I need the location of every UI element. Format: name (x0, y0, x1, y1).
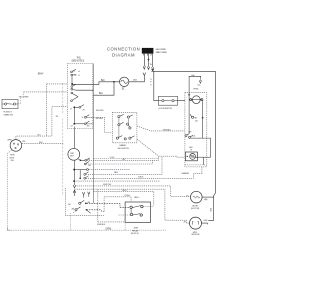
svg-text:C8: C8 (71, 125, 73, 127)
timer box TM1 (67, 63, 92, 128)
fabric selector contacts row3 (116, 136, 134, 140)
wire timer motor down (74, 160, 76, 185)
svg-text:L1: L1 (74, 71, 76, 73)
wire inside bottom (185, 164, 206, 166)
svg-text:C1: C1 (74, 74, 76, 76)
label motor ground (191, 232, 200, 236)
svg-text:(MOTOR): (MOTOR) (191, 208, 200, 210)
svg-text:M1 WHT: M1 WHT (96, 118, 104, 120)
svg-text:DOOR SWITCH: DOOR SWITCH (159, 108, 173, 110)
relay inner vertical (130, 209, 132, 214)
wire bundle D y169.6 TAN (89, 169, 131, 171)
node right bus dot (202, 117, 204, 119)
svg-text:4(M): 4(M) (204, 199, 208, 201)
wire door switch to heater (178, 100, 185, 102)
wire bundle F y178.3 to heater (86, 167, 202, 178)
wire branch x97.8 down (97, 189, 99, 222)
node timer bus dot1 (71, 83, 73, 85)
wire relay right up to drive feed (143, 206, 154, 208)
svg-text:WHT-BLK: WHT-BLK (97, 224, 106, 226)
contact C (84, 163, 86, 165)
fabric selector internal wires (119, 118, 128, 137)
svg-text:USE COPPER: USE COPPER (156, 49, 167, 51)
wire fuse to thermostat (188, 95, 191, 100)
power cord lead L2 (152, 54, 216, 221)
svg-text:FABRIC: FABRIC (120, 144, 127, 147)
node bus dots (73, 169, 75, 171)
disconnect arrows pair (82, 192, 90, 198)
thermostat contact (190, 114, 194, 118)
wire bundle E y174.4 (86, 156, 162, 174)
svg-text:240V: 240V (133, 80, 138, 82)
ground corner elbow (7, 227, 10, 230)
node right of motor (80, 159, 82, 161)
wire element down (203, 157, 205, 165)
wire blower right lead (202, 196, 214, 198)
timer right wire x93.8 vertical (92, 64, 94, 204)
wire cluster ground down (70, 211, 76, 230)
timer label TM1 (72, 57, 85, 62)
wire left entry y84 (47, 83, 68, 85)
ground wire GRN (7, 150, 166, 230)
label blower motor (191, 205, 200, 210)
wire vertical x46.7 (46, 84, 48, 136)
svg-text:YEL-W REV: YEL-W REV (19, 96, 30, 98)
svg-text:PUSH-TO: PUSH-TO (3, 112, 12, 114)
timer contact T2 (71, 74, 77, 76)
wire bundle G y181.1 (74, 180, 160, 182)
svg-text:MTR: MTR (134, 228, 139, 230)
contact B (85, 159, 87, 161)
wire bundle I y188.4 to blower (75, 189, 190, 223)
timer contact T4 blue wire (71, 88, 94, 90)
wire limit row (191, 138, 211, 157)
node element left (187, 156, 188, 157)
wire x104.6 to fabric box (93, 117, 112, 132)
fuse bracket lead (189, 76, 201, 94)
wire timer bottom to motor (74, 127, 76, 149)
svg-text:(GRN): (GRN) (106, 229, 112, 231)
label RED on L2 vertical (150, 79, 152, 87)
svg-text:GROUND: GROUND (191, 234, 200, 236)
svg-text:BLK-WH: BLK-WH (96, 110, 104, 112)
wire door switch to timer y92 (24, 91, 68, 93)
svg-text:PF(W): PF(W) (193, 89, 198, 91)
fuse disconnect arrow (199, 79, 201, 83)
buzzer BZ (120, 77, 129, 86)
svg-text:SEL SWITCH: SEL SWITCH (118, 148, 130, 150)
label motor switch (9, 155, 15, 163)
label push-to-start (3, 112, 13, 117)
blower motor circle (191, 191, 203, 203)
timer contact T8 (84, 115, 93, 119)
fabric selector contacts row1 (118, 114, 133, 118)
wire thermostat right bus (202, 101, 204, 118)
contact E (84, 174, 86, 176)
fabric selector switch box (112, 112, 136, 143)
cluster link vertical (79, 170, 81, 179)
timer contact T5 (71, 92, 78, 97)
wire bundle C y164 (86, 160, 152, 164)
power cord lead L1 (129, 54, 146, 82)
svg-text:BLWR: BLWR (192, 205, 198, 207)
wire bundle J y191.4 (93, 191, 153, 205)
svg-text:S-BLK: S-BLK (138, 177, 144, 179)
bottom-left cluster contact 2M (75, 207, 104, 213)
svg-text:START SW: START SW (3, 113, 13, 116)
svg-text:1M: 1M (87, 126, 90, 128)
timer contact T3 black wire (71, 84, 94, 87)
limit contacts (185, 134, 193, 139)
heater element box (185, 152, 197, 161)
wire element right (196, 156, 211, 158)
timer contact T7 (74, 105, 84, 109)
timer bus wire lower (73, 107, 75, 124)
wire push-to-start up (18, 92, 24, 104)
note text right of terminal block (156, 49, 168, 54)
svg-text:GRY-BLK: GRY-BLK (163, 129, 172, 131)
terminal block TB1 (black box) (142, 48, 154, 56)
label fabric selector (118, 144, 130, 150)
wire motor switch right BLK (22, 144, 64, 146)
svg-text:HEATER: HEATER (182, 172, 190, 175)
svg-text:TAN: TAN (114, 171, 118, 174)
wire motor ground right GND (202, 223, 209, 224)
heater assembly box (185, 93, 207, 167)
wire bundle A y158.5 step to heater element (93, 156, 185, 158)
hi-limit thermostat (190, 96, 203, 104)
bottom-left cluster contact 1M (79, 200, 130, 207)
node fuse entry (188, 94, 190, 96)
cabinet boundary dashed line (62, 83, 64, 196)
disconnect arrows on bus (73, 185, 76, 196)
timer contact T1 (71, 69, 76, 73)
wire bundle H y185.2 (75, 186, 191, 196)
svg-text:BRN: BRN (8, 139, 13, 141)
wire fabric to bundle diagonal (137, 139, 159, 156)
contact D (87, 169, 89, 171)
node timer bus dot3 (73, 123, 75, 125)
timer bus wire upper (71, 76, 73, 84)
node timer bus dot2 (73, 106, 75, 108)
door switch box (158, 96, 177, 105)
motor centrifugal switch M1 (10, 140, 22, 152)
label motor relay (131, 228, 139, 236)
wire bundle B y160.3 (87, 159, 159, 161)
node J1 (113, 81, 115, 83)
motor relay box (125, 202, 151, 222)
power cord lead N (147, 54, 149, 70)
svg-text:RELAY: RELAY (132, 229, 139, 232)
svg-text:WIRE CONDRS: WIRE CONDRS (156, 52, 168, 54)
contact F (84, 177, 86, 179)
wire BLACK L to timer (93, 82, 99, 85)
svg-text:MTR: MTR (10, 155, 15, 157)
svg-text:DIAGRAM: DIAGRAM (112, 53, 135, 58)
svg-text:(SEE NOTE 2): (SEE NOTE 2) (72, 60, 85, 62)
timer contact T6 (71, 97, 78, 102)
svg-text:5L: 5L (82, 117, 84, 119)
wire motor switch top VIO (16, 107, 68, 140)
svg-text:BLU: BLU (99, 93, 103, 95)
label timer motor (70, 153, 75, 158)
wire junction down to timer (BLUE) (93, 82, 114, 95)
wire relay ground stub (124, 222, 126, 230)
wire WHT-BLK to relay (66, 188, 104, 216)
timer motor TM (68, 148, 80, 160)
svg-text:CONNECTION: CONNECTION (107, 46, 140, 51)
svg-text:(NOTE 3): (NOTE 3) (131, 233, 139, 235)
svg-text:WHT-YEL: WHT-YEL (103, 184, 112, 186)
motor ground circle (190, 217, 202, 229)
svg-text:CENT: CENT (9, 157, 15, 159)
svg-text:GND: GND (203, 220, 208, 222)
wire fabric to heater RED (137, 126, 185, 131)
svg-text:VIO: VIO (37, 135, 41, 137)
wire right bus to limit (202, 118, 204, 138)
wire thermostat left bus (188, 100, 190, 134)
push-to-start switch box (2, 99, 18, 108)
title CONNECTION DIAGRAM (107, 46, 140, 57)
label HI-T 250 (194, 118, 199, 123)
wire buzzer left to junction (99, 81, 120, 83)
timer contact T9 (74, 121, 93, 125)
bundle labels (88, 157, 144, 197)
fabric selector contacts row2 (118, 122, 131, 129)
